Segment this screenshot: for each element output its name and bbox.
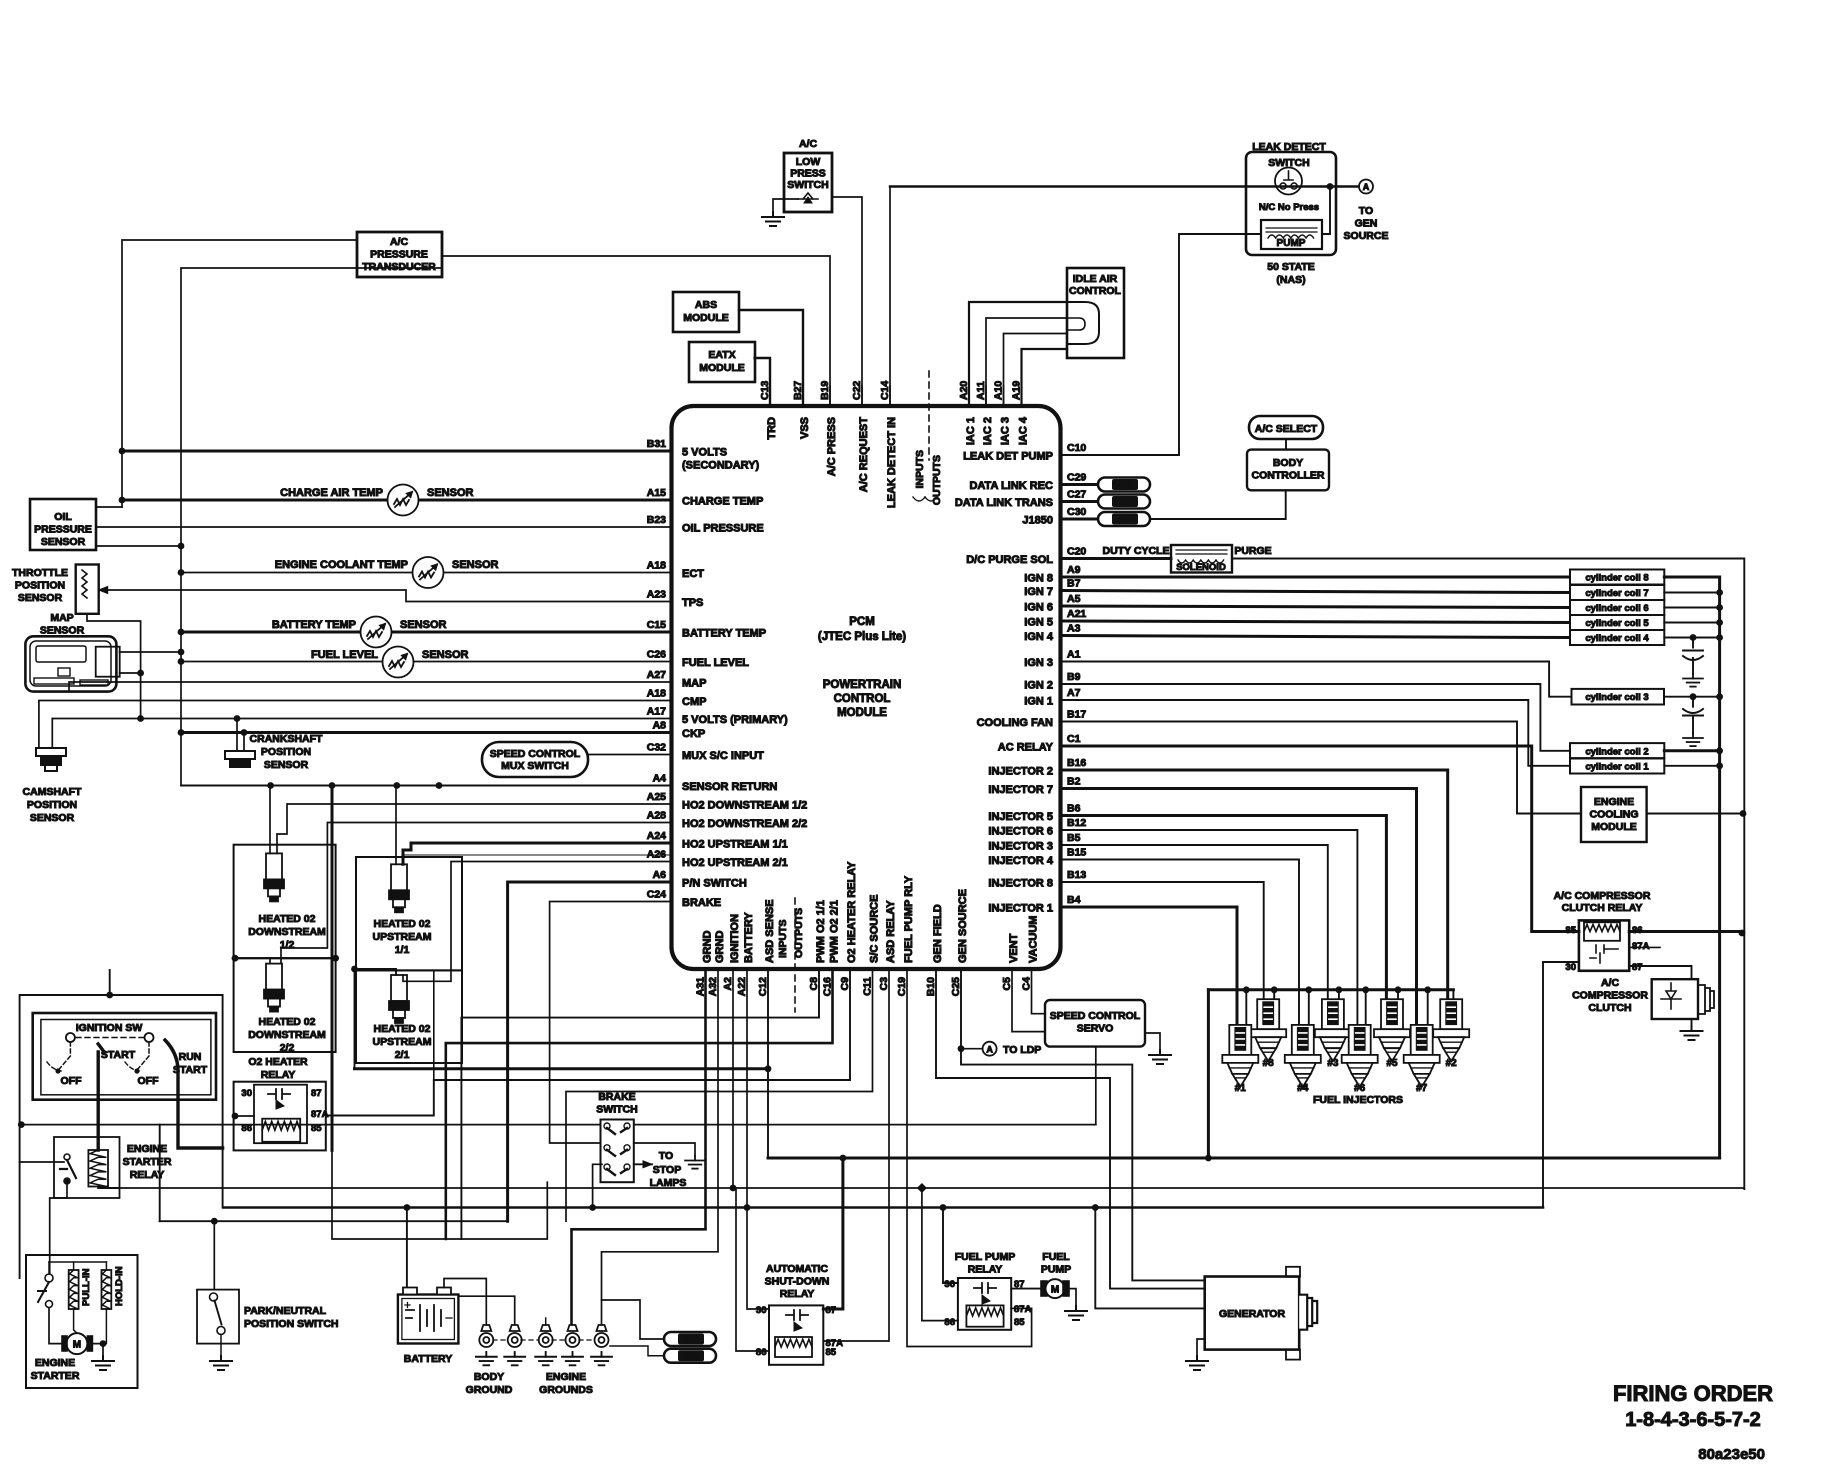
wire battery temp C15 — [181, 631, 672, 634]
heated O2 upstream 1/1 box — [356, 857, 462, 970]
svg-text:POSITION SWITCH: POSITION SWITCH — [244, 1318, 339, 1330]
wire clutch relay 87 to clutch coil — [1629, 966, 1691, 979]
svg-text:A/C SELECT: A/C SELECT — [1255, 423, 1318, 435]
svg-text:A24: A24 — [647, 830, 666, 842]
TPS lower wire to 5V primary bus — [87, 614, 141, 719]
svg-text:IAC 4: IAC 4 — [1018, 416, 1030, 445]
svg-text:A/C REQUEST: A/C REQUEST — [858, 417, 870, 492]
svg-text:D/C PURGE SOL: D/C PURGE SOL — [966, 554, 1053, 566]
svg-text:IGN 6: IGN 6 — [1024, 602, 1053, 614]
svg-text:SWITCH: SWITCH — [596, 1104, 637, 1116]
svg-text:HEATED 02: HEATED 02 — [374, 1023, 431, 1035]
clutch relay contact — [1590, 945, 1618, 963]
svg-text:SENSOR: SENSOR — [427, 487, 474, 499]
ABS module box — [673, 292, 739, 332]
svg-text:86: 86 — [944, 1317, 955, 1328]
svg-text:#5: #5 — [1386, 1058, 1398, 1069]
svg-text:A9: A9 — [1067, 564, 1081, 576]
svg-text:INJECTOR 5: INJECTOR 5 — [988, 811, 1053, 823]
svg-text:A6: A6 — [653, 869, 667, 881]
svg-text:OIL: OIL — [54, 511, 72, 523]
fuel level sensor circle — [383, 647, 414, 678]
svg-text:B12: B12 — [1067, 817, 1086, 829]
svg-text:BODY: BODY — [474, 1371, 504, 1383]
svg-text:GENERATOR: GENERATOR — [1219, 1308, 1286, 1320]
svg-text:COOLING: COOLING — [1590, 809, 1639, 821]
svg-text:IGN 1: IGN 1 — [1024, 696, 1053, 708]
svg-text:INJECTOR 8: INJECTOR 8 — [988, 878, 1053, 890]
svg-text:30: 30 — [944, 1279, 955, 1290]
wire BATTERY A22 to ASD relay 30 — [747, 969, 769, 1309]
cylinder coil 3 box — [1572, 689, 1665, 705]
svg-text:S/C SOURCE: S/C SOURCE — [869, 895, 881, 963]
svg-text:B13: B13 — [1067, 869, 1086, 881]
svg-text:RUN: RUN — [179, 1051, 202, 1063]
pump connection to switch output — [1322, 187, 1330, 235]
injector driver wires from PCM — [1061, 770, 1448, 999]
svg-text:HEATED 02: HEATED 02 — [259, 1016, 316, 1028]
svg-text:IGNITION SW: IGNITION SW — [76, 1022, 143, 1034]
wire GEN SOURCE C25 down — [961, 969, 1205, 1280]
coil common bus vertical — [1718, 577, 1721, 1158]
svg-text:STOP: STOP — [653, 1164, 681, 1176]
brake switch box — [601, 1120, 634, 1183]
svg-text:87: 87 — [311, 1088, 322, 1099]
battery temp sensor circle — [361, 617, 392, 648]
hold-in coil — [102, 1270, 112, 1309]
svg-text:A21: A21 — [1067, 608, 1086, 620]
starter motor ground — [92, 1344, 103, 1356]
svg-text:C32: C32 — [647, 742, 666, 754]
ASD relay capacitor — [786, 1310, 808, 1320]
svg-text:VSS: VSS — [799, 417, 811, 439]
svg-text:1/1: 1/1 — [395, 944, 410, 956]
wire CMP A18 — [39, 701, 672, 749]
ASD relay 86 wire to ignition bus — [736, 1188, 769, 1351]
wire 1/1 heater to C9 vertical — [433, 970, 435, 1080]
svg-text:MUX SWITCH: MUX SWITCH — [501, 760, 569, 772]
wire ABS to B27 — [739, 310, 803, 406]
wire A/C select to body controller — [1285, 439, 1287, 450]
svg-text:A/C: A/C — [390, 236, 409, 248]
svg-text:30: 30 — [756, 1305, 767, 1316]
svg-text:VENT: VENT — [1008, 933, 1020, 963]
svg-text:AC RELAY: AC RELAY — [998, 742, 1054, 754]
svg-text:IAC 1: IAC 1 — [965, 417, 977, 445]
bus R ignition feed — [118, 1187, 1744, 1189]
heated O2 downstream 1/2 sensor — [264, 853, 284, 901]
svg-text:PUMP: PUMP — [1041, 1264, 1071, 1276]
svg-text:INJECTOR 6: INJECTOR 6 — [988, 826, 1053, 838]
wire purge solenoid to right bus — [1232, 559, 1744, 1190]
svg-text:P/N SWITCH: P/N SWITCH — [682, 878, 747, 890]
brake switch lower drop to bus — [593, 1164, 602, 1207]
crankshaft sensor wires — [236, 719, 238, 752]
svg-text:cylinder coil 3: cylinder coil 3 — [1585, 692, 1648, 703]
oil pressure sensor wires — [96, 506, 122, 508]
svg-text:B9: B9 — [1067, 671, 1081, 683]
battery right terminal wire to body ground — [444, 1279, 486, 1327]
fuel pump relay coil — [966, 1305, 1003, 1326]
svg-text:BRAKE: BRAKE — [682, 897, 721, 909]
svg-text:D-5: D-5 — [684, 1351, 699, 1361]
connector D-6 — [1098, 478, 1150, 492]
starter coil top rail — [49, 1261, 106, 1263]
svg-text:#8: #8 — [1263, 1058, 1275, 1069]
starter relay contact feed — [20, 1161, 64, 1163]
svg-text:CKP: CKP — [682, 728, 705, 740]
wire C14 leak detect in — [889, 187, 891, 407]
engine coolant temp sensor circle — [413, 557, 444, 588]
svg-text:LOW: LOW — [796, 156, 821, 168]
svg-text:A27: A27 — [647, 669, 666, 681]
svg-text:RELAY: RELAY — [780, 1288, 815, 1300]
wire to D-4 — [602, 1300, 665, 1339]
svg-text:MODULE: MODULE — [1591, 821, 1637, 833]
wire 2/1 sensor to return vertical — [355, 969, 397, 975]
svg-text:MODULE: MODULE — [699, 362, 745, 374]
svg-text:GEN FIELD: GEN FIELD — [932, 904, 944, 963]
svg-text:85: 85 — [311, 1123, 322, 1134]
wire clutch relay 86 to purge bus — [1629, 930, 1742, 933]
svg-text:5 VOLTS (PRIMARY): 5 VOLTS (PRIMARY) — [682, 714, 788, 726]
svg-text:CONTROL: CONTROL — [834, 693, 891, 705]
svg-text:A1: A1 — [1067, 649, 1081, 661]
svg-text:GROUNDS: GROUNDS — [539, 1384, 593, 1396]
svg-text:A17: A17 — [647, 706, 666, 718]
svg-text:M: M — [1051, 1284, 1059, 1295]
svg-text:87A: 87A — [1632, 941, 1650, 952]
svg-text:B16: B16 — [1067, 757, 1086, 769]
svg-text:TPS: TPS — [682, 597, 703, 609]
low press switch ground wire — [773, 199, 798, 212]
svg-text:OIL PRESSURE: OIL PRESSURE — [682, 523, 764, 535]
engine starter box — [26, 1255, 138, 1388]
svg-text:85: 85 — [1014, 1317, 1025, 1328]
svg-text:A15: A15 — [647, 487, 666, 499]
A/C compressor clutch body — [1652, 979, 1698, 1019]
svg-text:O2 HEATER: O2 HEATER — [248, 1056, 308, 1068]
ASD relay coil — [775, 1337, 812, 1357]
svg-text:cylinder coil 4: cylinder coil 4 — [1585, 633, 1649, 644]
svg-text:85: 85 — [1565, 925, 1576, 936]
wire ASD sense C12 run — [355, 1067, 769, 1070]
O2 heater relay capacitor — [268, 1089, 290, 1099]
clutch connector ribs — [1698, 985, 1714, 1014]
svg-text:PURGE: PURGE — [1234, 545, 1271, 557]
wire C20 duty cycle purge — [1061, 557, 1172, 560]
svg-text:B4: B4 — [1067, 894, 1081, 906]
battery body — [398, 1295, 459, 1344]
svg-text:BATTERY TEMP: BATTERY TEMP — [272, 619, 356, 631]
starter relay coil bottom to bus — [98, 1187, 118, 1189]
svg-text:INJECTOR 2: INJECTOR 2 — [988, 766, 1053, 778]
cylinder coil 2 box — [1570, 743, 1664, 758]
svg-text:DATA LINK REC: DATA LINK REC — [969, 480, 1053, 492]
svg-text:CONTROL: CONTROL — [1069, 285, 1121, 297]
wire IGNITION A2 to bus — [732, 969, 734, 1188]
leak detect bus wire to gen source — [890, 185, 1360, 187]
svg-text:SENSOR RETURN: SENSOR RETURN — [682, 781, 777, 793]
svg-text:2/2: 2/2 — [280, 1042, 295, 1054]
A circle TO LDP — [961, 1048, 983, 1050]
svg-text:A: A — [1363, 182, 1370, 192]
inputs/outputs dashed divider bottom — [794, 898, 796, 1012]
wire transducer to B19 — [442, 256, 830, 406]
capacitor to ground below coil 3 — [1690, 693, 1697, 700]
battery feed from bus — [406, 1208, 408, 1289]
svg-text:B15: B15 — [1067, 847, 1086, 859]
wire 2/1 sensor to A26 — [403, 862, 672, 982]
leak detect switch circle symbol — [1275, 168, 1302, 195]
svg-text:A7: A7 — [1067, 687, 1081, 699]
svg-text:SENSOR: SENSOR — [30, 812, 75, 824]
svg-text:A/C: A/C — [1601, 977, 1620, 989]
svg-text:(SECONDARY): (SECONDARY) — [682, 460, 760, 472]
svg-text:IAC 3: IAC 3 — [1000, 417, 1012, 445]
wire leak det pump to C10 — [1061, 234, 1262, 455]
battery box wire to eyelet 2 — [458, 1296, 514, 1326]
svg-text:INJECTOR 3: INJECTOR 3 — [988, 841, 1053, 853]
ignition area outer container — [20, 995, 223, 1278]
svg-text:RELAY: RELAY — [968, 1264, 1003, 1276]
svg-text:TO: TO — [659, 1150, 673, 1162]
wire 5V secondary B31 — [122, 450, 672, 453]
svg-text:HEATED 02: HEATED 02 — [374, 918, 431, 930]
wire fuel level C26 — [181, 661, 672, 663]
brake line across — [21, 1124, 600, 1126]
park/neutral position switch box — [197, 1290, 239, 1344]
svg-text:AUTOMATIC: AUTOMATIC — [766, 1263, 828, 1275]
heated O2 upstream 1/1 sensor — [389, 864, 409, 912]
svg-text:A25: A25 — [647, 791, 666, 803]
pull-in coil — [69, 1270, 79, 1309]
svg-text:87: 87 — [1632, 962, 1643, 973]
sensor return crossbus in O2 box — [234, 957, 337, 959]
engine starter relay box — [54, 1137, 120, 1198]
wire AC relay C1 to clutch relay 85 — [1061, 746, 1579, 932]
svg-text:LEAK DETECT IN: LEAK DETECT IN — [886, 417, 898, 508]
svg-text:HO2 UPSTREAM 2/1: HO2 UPSTREAM 2/1 — [682, 857, 788, 869]
svg-text:PWM O2 2/1: PWM O2 2/1 — [829, 900, 841, 963]
svg-text:B17: B17 — [1067, 709, 1086, 721]
heated O2 downstream 2/2 sensor — [264, 964, 284, 1012]
svg-text:IGN 7: IGN 7 — [1024, 586, 1053, 598]
svg-text:(JTEC Plus Lite): (JTEC Plus Lite) — [818, 631, 906, 643]
inputs/outputs dashed divider top — [928, 371, 930, 460]
svg-text:RELAY: RELAY — [261, 1069, 296, 1081]
svg-text:A3: A3 — [1067, 623, 1081, 635]
svg-text:FUEL LEVEL: FUEL LEVEL — [682, 657, 749, 669]
start feed wire thick — [98, 1044, 104, 1052]
svg-text:GEN SOURCE: GEN SOURCE — [957, 889, 969, 963]
svg-text:CHARGE AIR TEMP: CHARGE AIR TEMP — [280, 487, 383, 499]
wire low press switch to C22 — [832, 197, 862, 406]
svg-text:80a23e50: 80a23e50 — [1698, 1446, 1765, 1463]
svg-text:ASD RELAY: ASD RELAY — [885, 900, 897, 963]
svg-text:RELAY: RELAY — [130, 1169, 165, 1181]
brake switch stop lamp wire with arrow — [634, 1163, 652, 1165]
svg-text:5 VOLTS: 5 VOLTS — [682, 447, 727, 459]
park neutral feed wire — [213, 1221, 215, 1289]
O2 relay wire 86 left — [235, 1115, 254, 1117]
svg-text:DOWNSTREAM: DOWNSTREAM — [248, 926, 326, 938]
svg-text:VACUUM: VACUUM — [1028, 916, 1040, 963]
svg-text:MAP: MAP — [50, 612, 73, 624]
vertical feed from A/C transducer upper — [122, 240, 357, 507]
oil pressure sensor box — [30, 499, 96, 550]
svg-text:A28: A28 — [647, 810, 666, 822]
ignition wires IGN8-IGN4 to cylinder coils — [1061, 576, 1571, 579]
left edge tap to bus — [18, 1121, 25, 1128]
svg-text:#1: #1 — [1235, 1083, 1247, 1094]
ignition switch outer box — [33, 1013, 216, 1100]
svg-text:D-7: D-7 — [1118, 497, 1133, 507]
svg-text:SOURCE: SOURCE — [1344, 230, 1389, 242]
svg-text:C30: C30 — [1067, 506, 1086, 518]
svg-text:(NAS): (NAS) — [1276, 274, 1305, 286]
svg-text:B23: B23 — [647, 514, 666, 526]
svg-text:30: 30 — [1565, 962, 1576, 973]
svg-text:BATTERY TEMP: BATTERY TEMP — [682, 628, 766, 640]
svg-text:cylinder coil 5: cylinder coil 5 — [1585, 618, 1649, 629]
brake switch ground — [634, 1143, 695, 1156]
wire O2 heater relay C9 run — [326, 969, 850, 1116]
svg-text:cylinder coil 6: cylinder coil 6 — [1585, 603, 1648, 614]
wire GRND A31 to engine ground — [572, 969, 706, 1326]
svg-text:BATTERY: BATTERY — [743, 912, 755, 963]
ground eyelets — [479, 1325, 493, 1347]
svg-text:MAP: MAP — [682, 678, 706, 690]
svg-text:INJECTOR 1: INJECTOR 1 — [988, 903, 1053, 915]
speed control mux switch oval — [482, 742, 588, 777]
svg-text:B6: B6 — [1067, 803, 1081, 815]
svg-text:ABS: ABS — [695, 299, 717, 311]
wire charge temp A15 — [122, 499, 672, 502]
svg-text:OFF: OFF — [138, 1075, 160, 1087]
svg-text:M: M — [73, 1340, 81, 1351]
svg-text:PULL-IN: PULL-IN — [81, 1268, 92, 1306]
svg-text:ENGINE: ENGINE — [35, 1357, 75, 1369]
fuel pump relay 86 wire to bus — [922, 1188, 958, 1321]
wire P/N switch A6 down — [508, 882, 672, 1221]
generator bottom lug — [1286, 1350, 1300, 1360]
eyelet 3 stub — [545, 1318, 547, 1325]
svg-text:FUEL PUMP RLY: FUEL PUMP RLY — [903, 875, 915, 963]
svg-text:C27: C27 — [1067, 489, 1086, 501]
generator top lug — [1286, 1267, 1300, 1277]
svg-text:N/C No Press: N/C No Press — [1259, 202, 1319, 213]
wire CKP A8 — [181, 731, 672, 734]
svg-text:SOLENOID: SOLENOID — [1176, 562, 1226, 573]
svg-text:DUTY CYCLE: DUTY CYCLE — [1103, 545, 1170, 557]
wire 1/2 sensor to A25 — [277, 804, 672, 853]
svg-text:HO2 UPSTREAM 1/1: HO2 UPSTREAM 1/1 — [682, 839, 788, 851]
charge air temp sensor circle — [388, 485, 419, 516]
engine starter relay contacts — [64, 1154, 70, 1160]
wire S/C source C11 run — [566, 969, 873, 1221]
svg-text:IGNITION: IGNITION — [729, 914, 741, 963]
engine starter contact — [45, 1274, 53, 1282]
svg-text:INJECTOR 4: INJECTOR 4 — [988, 855, 1053, 867]
A/C select capsule — [1249, 416, 1323, 439]
speed control servo box — [1045, 1000, 1145, 1047]
svg-text:SWITCH: SWITCH — [787, 179, 828, 191]
connector D-4 — [664, 1332, 716, 1346]
wire IGN2 to coil 2 — [1061, 684, 1571, 751]
svg-text:C10: C10 — [1067, 442, 1086, 454]
wire GRND A32 to engine ground — [602, 969, 719, 1326]
low press switch symbol — [798, 193, 818, 199]
svg-text:HO2 DOWNSTREAM 2/2: HO2 DOWNSTREAM 2/2 — [682, 818, 807, 830]
svg-text:PRESSURE: PRESSURE — [34, 524, 92, 536]
svg-text:C15: C15 — [647, 619, 666, 631]
svg-text:FUEL PUMP: FUEL PUMP — [955, 1251, 1015, 1263]
svg-text:IGN 5: IGN 5 — [1024, 617, 1053, 629]
svg-text:MUX S/C INPUT: MUX S/C INPUT — [682, 750, 764, 762]
svg-text:A5: A5 — [1067, 593, 1081, 605]
wire engine cooling module to purge bus — [1647, 813, 1745, 815]
svg-text:A8: A8 — [653, 720, 667, 732]
heated O2 outer box — [234, 845, 336, 959]
fuel pump ground — [1069, 1289, 1076, 1306]
camshaft position sensor symbol — [36, 748, 66, 771]
svg-text:HOLD-IN: HOLD-IN — [114, 1266, 125, 1306]
svg-text:PARK/NEUTRAL: PARK/NEUTRAL — [244, 1305, 327, 1317]
bus 1221 to park neutral — [160, 1220, 508, 1222]
wire 2/2 sensor to A28 — [281, 823, 672, 964]
wire 1/1 sensor to A24 — [403, 855, 672, 864]
capacitor to ground above coil 3 — [1690, 634, 1697, 641]
svg-text:86: 86 — [241, 1123, 252, 1134]
fuel pump motor — [1011, 1288, 1045, 1290]
svg-text:SENSOR: SENSOR — [40, 625, 85, 637]
throttle position sensor box — [76, 565, 99, 614]
injector supply bus — [1208, 988, 1453, 991]
svg-text:D-6: D-6 — [1118, 480, 1133, 490]
svg-text:D-2: D-2 — [1118, 515, 1133, 525]
svg-text:PRESSURE: PRESSURE — [370, 249, 428, 261]
idle air control connector symbol — [1067, 302, 1099, 344]
svg-text:INPUTS: INPUTS — [777, 919, 789, 958]
cylinder coil 1 box — [1570, 759, 1664, 774]
svg-text:IGN 3: IGN 3 — [1024, 657, 1053, 669]
svg-text:PRESS: PRESS — [790, 168, 826, 180]
A/C low press switch box — [784, 153, 832, 212]
clutch ground — [1691, 1019, 1693, 1026]
svg-text:cylinder coil 1: cylinder coil 1 — [1585, 761, 1649, 772]
svg-text:FIRING ORDER: FIRING ORDER — [1613, 1381, 1773, 1406]
svg-text:BRAKE: BRAKE — [598, 1091, 635, 1103]
generator connector ribs — [1299, 1295, 1317, 1330]
O2 heater relay outer box — [234, 1082, 326, 1151]
ignition switch blades — [58, 1042, 70, 1070]
svg-text:GRND: GRND — [702, 931, 714, 963]
wire D-2 to body controller — [1150, 490, 1286, 519]
svg-text:C20: C20 — [1067, 546, 1086, 558]
svg-text:INJECTOR 7: INJECTOR 7 — [988, 784, 1053, 796]
svg-text:2/1: 2/1 — [395, 1049, 410, 1061]
svg-text:UPSTREAM: UPSTREAM — [373, 931, 432, 943]
svg-text:B2: B2 — [1067, 776, 1081, 788]
svg-text:#7: #7 — [1416, 1083, 1428, 1094]
svg-text:#3: #3 — [1327, 1058, 1339, 1069]
generator feed from bus S — [1095, 1208, 1204, 1309]
svg-text:POSITION: POSITION — [261, 746, 311, 758]
cylinder coil boxes 8-4 — [1570, 570, 1664, 585]
connector D-2 — [1098, 512, 1150, 526]
wire C30 to D-2 — [1061, 518, 1099, 521]
